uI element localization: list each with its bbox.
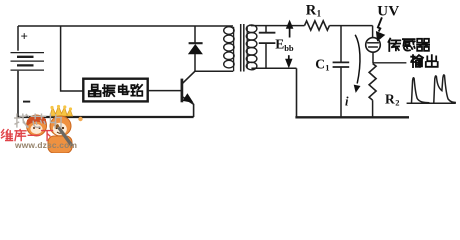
Ebb down arrow [288, 55, 290, 59]
battery B1 [17, 26, 19, 51]
transformer core [240, 24, 242, 72]
UV arrow [378, 17, 382, 31]
resistor R2 [369, 64, 376, 101]
wire base [148, 90, 181, 92]
wire secondary top rail [251, 25, 305, 27]
diode D1 [194, 26, 196, 44]
wire rail to oscillator [61, 26, 83, 91]
capacitor Ebb [265, 26, 267, 33]
watermark red text 维库一下 [2, 130, 13, 141]
wire rail right [329, 25, 372, 27]
label sensor 传感器 [388, 39, 400, 51]
oscillator box 晶振电路 [83, 79, 147, 102]
Ebb up arrow [289, 28, 291, 38]
wire bottom left [17, 116, 193, 118]
capacitor C1 [340, 26, 342, 63]
waveform pulses [412, 78, 430, 103]
wire secondary bottom [251, 67, 296, 69]
wire bottom right rail [295, 116, 409, 118]
waveform baseline [407, 102, 456, 104]
watermark gray text 找芯片 [0, 0, 460, 153]
wire output tap [373, 62, 407, 64]
transformer T1 primary winding [233, 27, 235, 71]
current arrow i [355, 35, 360, 84]
wire collector-primary [195, 70, 233, 72]
resistor R1 [305, 21, 330, 30]
UV sensor tube [372, 26, 374, 38]
label 输出 [411, 55, 423, 67]
watermark url [15, 140, 77, 150]
transistor Q1 [181, 79, 184, 103]
wire top rail [18, 25, 233, 27]
transformer T1 secondary winding [246, 26, 248, 69]
